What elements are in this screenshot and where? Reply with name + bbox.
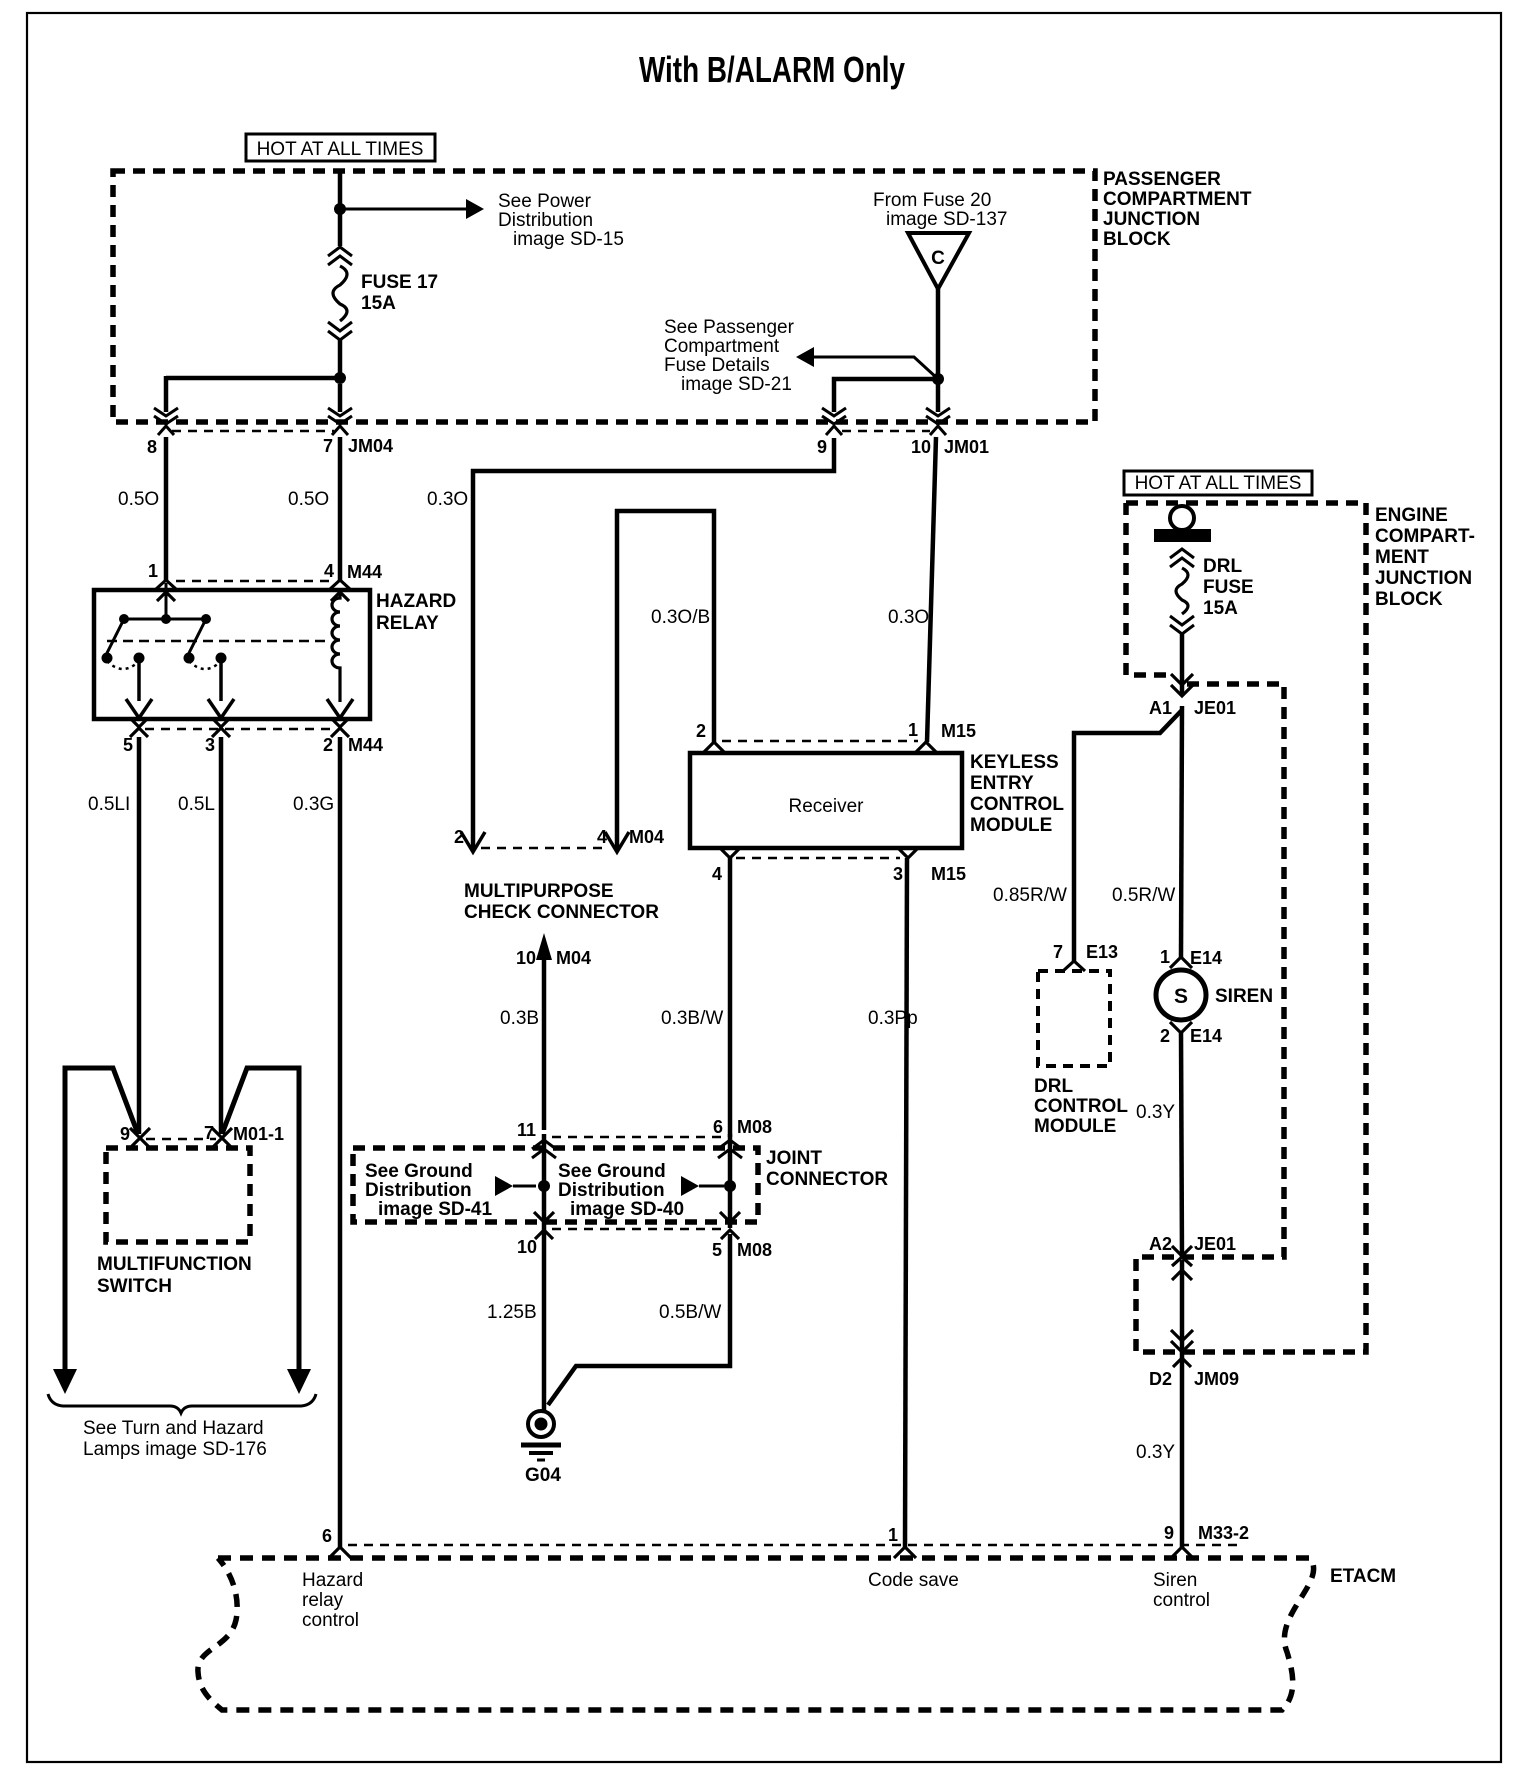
svg-text:0.5LI: 0.5LI [88,794,130,815]
svg-text:0.5R/W: 0.5R/W [1112,885,1175,906]
connector M44 pin 1 [155,580,177,601]
passenger compartment junction block (dashed box) [113,171,1095,422]
label M08 bottom pins [517,1237,772,1260]
connector M04 pin 2 arrow [461,832,485,852]
svg-text:7: 7 [323,436,333,456]
connector M08 pin 10 [534,1212,554,1239]
svg-text:5: 5 [123,735,133,755]
label 0.3O left [427,489,468,510]
svg-text:S: S [1174,985,1188,1008]
multifunction switch dashed box [106,1148,250,1242]
connector M15 pin 4 [719,847,741,858]
svg-text:4: 4 [597,827,607,847]
svg-text:0.3B/W: 0.3B/W [661,1008,723,1029]
note See Ground Distribution image SD-40 [558,1161,684,1220]
svg-text:7: 7 [204,1123,214,1143]
wire hot feed to fuse 17 [338,172,343,246]
label G04 [525,1465,561,1486]
connector JM04 pin 8 [154,408,178,435]
multifunction switch arrowheads [53,1369,311,1394]
svg-text:image SD-41: image SD-41 [378,1199,492,1220]
connector M04 pin 10 arrow [536,933,552,1130]
svg-text:HAZARD: HAZARD [376,591,456,612]
connector C from fuse 20 triangle [908,233,969,289]
label 0.5LI [88,794,130,815]
connector M44 bottom dashed line [145,728,334,730]
svg-text:M33-2: M33-2 [1198,1523,1249,1543]
connector ETACM dashed line [348,1544,1240,1546]
svg-text:See Passenger: See Passenger [664,317,795,338]
label JE01 A2 [1149,1234,1236,1254]
label 0.3O right [888,607,929,628]
svg-text:0.3O: 0.3O [888,607,929,628]
svg-text:JM09: JM09 [1194,1369,1239,1389]
label 0.3B/W [661,1008,723,1029]
svg-text:8: 8 [147,437,157,457]
title [639,49,905,90]
connector M15 top dashed line [722,740,918,742]
svg-text:See Ground: See Ground [365,1161,473,1182]
svg-text:FUSE 17: FUSE 17 [361,272,438,293]
wire branch to JM04 pin 8 [166,376,342,412]
svg-text:9: 9 [1164,1523,1174,1543]
connector M15 pin 1 [915,742,937,753]
siren symbol [1156,970,1206,1020]
svg-text:JUNCTION: JUNCTION [1103,209,1200,230]
wire 0.5R/W JE01 to siren [1181,706,1182,957]
connector M01-1 pin 9 [130,1128,150,1147]
label HOT AT ALL TIMES (passenger) [246,134,435,161]
relay wire pin3 [208,658,234,718]
label E14 pin 2 [1160,1026,1222,1046]
connector JM04 dashed line [172,430,334,432]
svg-text:0.3Y: 0.3Y [1136,1102,1175,1123]
label 0.3Pp [868,1008,918,1029]
svg-text:See Turn and Hazard: See Turn and Hazard [83,1418,264,1439]
svg-text:E14: E14 [1190,1026,1222,1046]
label 0.5R/W [1112,885,1175,906]
svg-text:15A: 15A [1203,598,1238,619]
label ETACM pin 1 [888,1525,898,1545]
connector M44 pin 4 [329,580,351,601]
svg-text:JOINT: JOINT [766,1148,822,1169]
svg-text:JE01: JE01 [1194,698,1236,718]
label 0.5O left [118,489,159,510]
svg-text:0.3B: 0.3B [500,1008,539,1029]
svg-text:M04: M04 [629,827,664,847]
svg-text:9: 9 [817,437,827,457]
svg-text:7: 7 [1053,942,1063,962]
svg-text:4: 4 [712,864,722,884]
svg-text:1.25B: 1.25B [487,1302,537,1323]
connector M01-1 pin 7 [212,1128,232,1147]
wire 0.3B/W [728,858,733,1137]
svg-text:control: control [302,1610,359,1631]
svg-text:MULTIFUNCTION: MULTIFUNCTION [97,1254,252,1275]
connector ETACM pin 9 [1171,1547,1193,1558]
connector JM04 pin 7 [328,408,352,435]
relay contacts [102,653,227,664]
svg-text:Hazard: Hazard [302,1570,363,1591]
fuse FUSE 17 15A symbol [328,247,352,340]
svg-text:relay: relay [302,1590,344,1611]
ground distribution arrow SD-40 [681,1176,724,1196]
wire 0.5O pin8 to relay pin1 [164,437,169,580]
svg-text:BLOCK: BLOCK [1375,589,1443,610]
label M33-2 pin 9 [1164,1523,1249,1543]
connector M08 pin 6 [718,1140,742,1158]
svg-text:M08: M08 [737,1117,772,1137]
label 0.3Y upper [1136,1102,1175,1123]
svg-text:ENTRY: ENTRY [970,773,1034,794]
label E13 pin 7 [1053,942,1118,962]
svg-text:M44: M44 [347,562,382,582]
label FUSE 17 15A [361,272,438,314]
wire 0.85R/W branch to E13 [1074,710,1182,961]
connector M04 dashed line [481,847,608,849]
label 0.3Y lower [1136,1442,1175,1463]
label JM04 pins [147,436,393,457]
label DRL FUSE 15A [1203,556,1254,619]
svg-text:15A: 15A [361,293,396,314]
svg-text:0.5O: 0.5O [288,489,329,510]
label 0.5B/W [659,1302,721,1323]
svg-text:With B/ALARM Only: With B/ALARM Only [639,49,905,90]
svg-text:5: 5 [712,1240,722,1260]
svg-text:DRL: DRL [1203,556,1242,577]
svg-text:6: 6 [713,1117,723,1137]
svg-text:0.3O: 0.3O [427,489,468,510]
wire joint connector right through [728,1134,733,1228]
label Siren control [1153,1570,1210,1611]
engine compartment junction block (dashed outline) [1126,503,1366,1352]
label JM09 D2 [1149,1369,1239,1389]
connector E13 pin 7 [1063,961,1085,971]
svg-text:SIREN: SIREN [1215,986,1273,1007]
svg-text:image SD-137: image SD-137 [886,209,1007,230]
svg-text:RELAY: RELAY [376,613,439,634]
wire fuse to junction B [338,340,343,381]
svg-text:1: 1 [908,720,918,740]
node junction dot B [334,372,346,384]
battery feed symbol [1154,506,1211,542]
wire arrow to power distribution [340,199,484,219]
svg-text:0.5L: 0.5L [178,794,215,815]
svg-text:6: 6 [322,1526,332,1546]
connector E14 pin 1 [1170,957,1192,968]
svg-text:image SD-15: image SD-15 [513,229,624,250]
svg-text:A2: A2 [1149,1234,1172,1254]
svg-text:M01-1: M01-1 [233,1124,284,1144]
svg-text:MENT: MENT [1375,547,1429,568]
svg-text:MULTIPURPOSE: MULTIPURPOSE [464,881,614,902]
svg-text:1: 1 [148,561,158,581]
fuse DRL FUSE 15A symbol [1170,549,1194,634]
svg-text:HOT AT ALL TIMES: HOT AT ALL TIMES [257,139,424,160]
label HAZARD RELAY [376,591,456,634]
label M08 top pins [517,1117,772,1140]
svg-text:C: C [931,248,945,269]
note See Passenger Compartment Fuse Details image SD-21 [664,317,795,395]
wire arrow to fuse details [796,347,938,379]
connector M15 pin 3 [897,847,919,858]
label M04 pins 2 4 [454,827,664,847]
wire 0.3Y siren to JE01 A2 [1181,1033,1182,1258]
multifunction switch outline left [65,1068,138,1372]
label JM01 pins [817,437,989,457]
label JE01 A1 [1149,698,1236,718]
relay common bar [119,614,211,624]
wire branch to JM01 pin 9 [834,379,938,412]
relay coil [327,589,353,718]
note See Ground Distribution image SD-41 [365,1161,492,1220]
multifunction switch outline right [222,1068,299,1372]
svg-text:M08: M08 [737,1240,772,1260]
joint connector dashed box [353,1148,758,1222]
svg-text:BLOCK: BLOCK [1103,229,1171,250]
module ETACM dashed outline [198,1558,1314,1710]
relay switch arm left [106,619,124,655]
connector M15 pin 2 [703,742,725,753]
svg-text:10: 10 [517,1237,537,1257]
module receiver box [690,753,962,848]
label ETACM [1330,1566,1396,1587]
connector JM01 pin 9 [822,408,846,435]
connector JE01 pin A2 [1172,1246,1192,1280]
svg-text:2: 2 [696,721,706,741]
svg-text:JUNCTION: JUNCTION [1375,568,1472,589]
svg-text:3: 3 [205,735,215,755]
svg-text:JE01: JE01 [1194,1234,1236,1254]
wire 0.3O/B [617,511,714,850]
svg-text:D2: D2 [1149,1369,1172,1389]
connector M04 pin 4 arrow [605,832,629,852]
label 0.3O/B [651,607,710,628]
svg-text:1: 1 [888,1525,898,1545]
svg-text:Distribution: Distribution [558,1180,665,1201]
connector ETACM pin 1 [894,1547,916,1558]
relay contact arc left [107,661,139,669]
svg-text:0.3Y: 0.3Y [1136,1442,1175,1463]
connector M44 pin 2 [331,718,349,737]
svg-text:3: 3 [893,864,903,884]
svg-text:10: 10 [516,948,536,968]
connector M08 pin 5 [720,1212,740,1239]
node junction dot C [932,373,944,385]
svg-text:image SD-21: image SD-21 [681,374,792,395]
svg-text:DRL: DRL [1034,1076,1073,1097]
label ENGINE COMPARTMENT JUNCTION BLOCK [1375,505,1475,610]
label JOINT CONNECTOR [766,1148,888,1190]
svg-text:11: 11 [517,1120,536,1140]
brace see turn and hazard [48,1394,316,1413]
relay wire pin5 [126,658,152,718]
label 0.5O right [288,489,329,510]
node joint dot right [724,1180,736,1192]
connector M44 pin 3 [212,718,230,737]
svg-text:0.85R/W: 0.85R/W [993,885,1067,906]
connector JM01 pin 10 [926,408,950,435]
relay HAZARD RELAY box [94,590,370,719]
svg-text:E14: E14 [1190,948,1222,968]
svg-text:M44: M44 [348,735,383,755]
connector JM01 dashed line [842,430,930,432]
label 0.5L [178,794,215,815]
wire 0.5L [219,737,224,1134]
label KEYLESS ENTRY CONTROL MODULE [970,752,1064,836]
label M44 top pins [148,561,382,582]
svg-text:KEYLESS: KEYLESS [970,752,1059,773]
svg-text:0.3O/B: 0.3O/B [651,607,710,628]
svg-text:MODULE: MODULE [1034,1116,1116,1137]
label DRL CONTROL MODULE [1034,1076,1128,1137]
svg-text:Fuse Details: Fuse Details [664,355,770,376]
connector JM09 pin D2 [1171,1330,1193,1367]
wire stub JM04 pin 7 [338,384,343,412]
connector JE01 pin A1 [1171,674,1193,696]
svg-text:0.5O: 0.5O [118,489,159,510]
note See Turn and Hazard Lamps image SD-176 [83,1418,267,1460]
note See Power Distribution image SD-15 [498,191,624,250]
label 1.25B [487,1302,537,1323]
ground distribution arrow SD-41 [495,1176,536,1196]
svg-text:Receiver: Receiver [789,796,865,817]
label 0.85R/W [993,885,1067,906]
wire 0.5B/W to ground [548,1234,730,1405]
relay switch arm right [188,619,206,655]
svg-text:CONNECTOR: CONNECTOR [766,1169,888,1190]
relay dashed actuator line [107,640,327,643]
svg-text:ETACM: ETACM [1330,1566,1396,1587]
node joint dot left [538,1180,550,1192]
svg-text:Lamps image SD-176: Lamps image SD-176 [83,1439,267,1460]
connector M44 pin 5 [130,718,148,737]
svg-text:0.5B/W: 0.5B/W [659,1302,721,1323]
svg-text:image SD-40: image SD-40 [570,1199,684,1220]
wire JE01 A2 to JM09 D2 [1180,1260,1185,1547]
wire 0.3G [338,737,343,1547]
label E14 pin 1 [1160,947,1222,968]
svg-text:Compartment: Compartment [664,336,780,357]
svg-text:CHECK CONNECTOR: CHECK CONNECTOR [464,902,659,923]
svg-text:HOT AT ALL TIMES: HOT AT ALL TIMES [1135,473,1302,494]
label MULTIPURPOSE CHECK CONNECTOR [464,881,659,923]
wire 0.3O JM01 to receiver pin1 [927,437,936,742]
connector M08 bottom dashed line [552,1228,722,1230]
svg-text:Distribution: Distribution [365,1180,472,1201]
svg-text:CONTROL: CONTROL [970,794,1064,815]
svg-text:G04: G04 [525,1465,561,1486]
label Hazard relay control [302,1570,363,1631]
label M44 bottom pins [123,735,383,755]
label ETACM pin 6 [322,1526,332,1546]
wire 0.5LI [137,737,142,1134]
svg-text:1: 1 [1160,947,1170,967]
label PASSENGER COMPARTMENT JUNCTION BLOCK [1103,169,1252,250]
label M01-1 pins [120,1123,284,1144]
label Receiver [789,796,865,817]
connector M15 bottom dashed line [736,857,900,859]
svg-text:E13: E13 [1086,942,1118,962]
label HOT AT ALL TIMES (engine) [1124,471,1312,495]
svg-text:2: 2 [1160,1026,1170,1046]
module DRL CONTROL MODULE dashed box [1038,971,1110,1066]
svg-text:M15: M15 [941,721,976,741]
svg-text:FUSE: FUSE [1203,577,1254,598]
label M15 bottom pins [712,864,966,884]
svg-text:10: 10 [911,437,931,457]
svg-text:Code save: Code save [868,1570,959,1591]
connector M08 top dashed line [552,1136,722,1138]
label M04 pin 10 [516,948,591,968]
svg-text:From Fuse 20: From Fuse 20 [873,190,991,211]
svg-text:2: 2 [454,827,464,847]
svg-text:M04: M04 [556,948,591,968]
wire joint connector left through [542,1134,547,1411]
svg-text:JM01: JM01 [944,437,989,457]
svg-text:COMPARTMENT: COMPARTMENT [1103,189,1252,210]
wire 0.3O from JM01 pin9 [473,438,834,850]
svg-text:Distribution: Distribution [498,210,593,231]
svg-text:2: 2 [323,735,333,755]
label MULTIFUNCTION SWITCH [97,1254,252,1297]
svg-text:M15: M15 [931,864,966,884]
connector M01-1 dashed line [146,1138,216,1140]
note From Fuse 20 image SD-137 [873,190,1007,230]
relay internal feed [165,583,168,621]
node junction dot A [334,203,346,215]
svg-text:A1: A1 [1149,698,1172,718]
wire 0.5O pin7 to relay pin4 [338,437,343,580]
svg-text:PASSENGER: PASSENGER [1103,169,1221,190]
svg-text:COMPART-: COMPART- [1375,526,1475,547]
label 0.3B [500,1008,539,1029]
svg-text:MODULE: MODULE [970,815,1052,836]
svg-text:Siren: Siren [1153,1570,1197,1591]
svg-text:control: control [1153,1590,1210,1611]
svg-text:CONTROL: CONTROL [1034,1096,1128,1117]
wire 0.3Pp [905,858,907,1547]
label Code save [868,1570,959,1591]
label SIREN [1215,986,1273,1007]
svg-text:0.3G: 0.3G [293,794,334,815]
connector M44 top dashed line [176,580,330,582]
svg-text:JM04: JM04 [348,436,393,456]
connector M08 pin 11 [532,1140,556,1158]
svg-text:ENGINE: ENGINE [1375,505,1448,526]
connector E14 pin 2 [1170,1022,1192,1033]
label M15 top pins [696,720,976,741]
connector ETACM pin 6 [329,1547,351,1558]
svg-text:4: 4 [324,561,334,581]
wire fuse20 to junction [936,289,941,412]
ground G04 symbol [521,1411,561,1460]
svg-text:See Ground: See Ground [558,1161,666,1182]
svg-text:See Power: See Power [498,191,592,212]
svg-text:0.3Pp: 0.3Pp [868,1008,918,1029]
label 0.3G [293,794,334,815]
svg-text:SWITCH: SWITCH [97,1276,172,1297]
svg-text:9: 9 [120,1124,130,1144]
relay contact arc right [189,661,221,669]
wire drl fuse to JE01 [1180,634,1185,696]
